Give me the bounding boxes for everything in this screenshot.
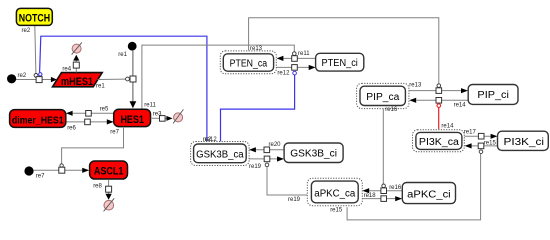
reaction square re3 xyxy=(160,116,166,122)
wire re20 GSK3B_ci to GSK3B_ca xyxy=(256,149,284,151)
arrowhead re16 into aPKC_ca xyxy=(362,188,369,193)
wire re16 aPKC_ci to aPKC_ca xyxy=(369,190,402,192)
svg-text:PI3K_ca: PI3K_ca xyxy=(419,137,459,148)
arrowhead re5 into dimer_HES1 xyxy=(66,111,73,116)
wire red PI3K_ca to re14 (modifier) xyxy=(438,108,440,130)
arrowhead re15 into PI3K_ca xyxy=(465,143,472,148)
svg-text:ASCL1: ASCL1 xyxy=(94,165,124,177)
node catalysis circle aPKC_ca at re19 xyxy=(265,163,269,167)
node catalysis circle HES1 at re11 xyxy=(293,52,297,56)
RNA mHES1 xyxy=(53,73,103,87)
wire mHES1 to re1 (modifier) xyxy=(98,78,126,80)
degradation circle re3 xyxy=(174,113,183,122)
svg-text:re16: re16 xyxy=(389,185,402,191)
reaction square re7 xyxy=(59,167,65,173)
wire re13 PIP_ca to PIP_ci xyxy=(409,90,461,92)
species PTEN_ci xyxy=(316,53,364,71)
species dimer_HES1 xyxy=(10,110,66,128)
degradation circle re4 xyxy=(72,44,81,53)
arrowhead re14 into PIP_ca xyxy=(409,98,416,103)
wire re8 ASCL1 degradation xyxy=(108,179,110,194)
svg-text:mHES1: mHES1 xyxy=(61,76,93,88)
svg-text:aPKC_ci: aPKC_ci xyxy=(407,189,451,200)
arrowhead re12 into PTEN_ci xyxy=(309,65,316,70)
svg-text:re14: re14 xyxy=(441,124,454,130)
arrowhead re17 into PI3K_ci xyxy=(491,134,498,139)
wire blue GSK3B_ca to re12 (modifier re12) xyxy=(221,75,295,141)
svg-text:GSK3B_ca: GSK3B_ca xyxy=(196,149,244,160)
svg-text:PTEN_ca: PTEN_ca xyxy=(230,59,268,70)
wire PTEN_ca to re13 (modifier) xyxy=(249,18,439,84)
species PIP_ci xyxy=(468,85,518,105)
arrowhead re2 into mHES1 xyxy=(51,77,57,82)
svg-text:re13: re13 xyxy=(250,46,263,52)
species PTEN_ca active dashed xyxy=(220,51,276,74)
svg-text:re3: re3 xyxy=(153,111,162,117)
svg-text:PIP_ci: PIP_ci xyxy=(477,90,509,101)
reaction square re20 xyxy=(264,147,270,153)
wire HES1 to re11 (modifier) xyxy=(142,45,294,109)
svg-text:PIP_ca: PIP_ca xyxy=(366,92,399,103)
wire re15 PI3K_ci to PI3K_ca xyxy=(471,145,497,147)
wire re1 source to HES1 xyxy=(132,51,134,102)
reaction square re14 xyxy=(436,98,442,104)
reaction square re16 xyxy=(381,188,387,194)
node catalysis circle PIP_ca at re16 xyxy=(382,184,386,188)
node blue catalysis circle at re2 xyxy=(39,73,42,76)
wire re7 source to ASCL1 xyxy=(34,169,83,171)
node catalysis circle NOTCH at re2 xyxy=(34,74,38,78)
species GSK3B_ci xyxy=(284,143,343,163)
wire re5 HES1 to dimer_HES1 xyxy=(72,112,113,114)
wire aPKC_ca to re19 (modifier) xyxy=(267,167,307,195)
node catalysis circle mHES1 at re1 xyxy=(126,77,130,81)
arrowhead re6 into HES1 xyxy=(107,119,114,124)
svg-text:re11: re11 xyxy=(298,51,310,57)
source circle re1 xyxy=(128,42,137,51)
wire blue GSK3B_ca to re2 (modifier re2) xyxy=(40,36,207,141)
svg-text:re11: re11 xyxy=(144,102,156,108)
arrowhead re3 xyxy=(166,116,172,121)
svg-text:dimer_HES1: dimer_HES1 xyxy=(12,115,64,126)
node red catalysis circle PI3K_ca at re14 xyxy=(437,104,441,108)
arrowhead re8 down xyxy=(105,194,111,200)
svg-text:re8: re8 xyxy=(93,183,102,189)
svg-text:re15: re15 xyxy=(484,140,497,146)
species PI3K_ci xyxy=(498,131,549,150)
arrowhead re11 into PTEN_ca xyxy=(277,56,284,61)
svg-text:re14: re14 xyxy=(454,102,467,108)
svg-text:re18: re18 xyxy=(364,193,377,199)
svg-text:re15: re15 xyxy=(330,208,343,214)
svg-text:re12: re12 xyxy=(205,137,218,143)
svg-text:re2: re2 xyxy=(18,73,27,79)
degradation circle re8 xyxy=(104,200,114,210)
arrowhead re13 into PIP_ci xyxy=(461,88,468,93)
wire PIP_ca to re16 (modifier) xyxy=(382,109,384,184)
reaction square re5 xyxy=(86,111,92,117)
svg-text:re20: re20 xyxy=(269,142,282,148)
reaction square re1 xyxy=(130,76,136,82)
svg-text:re17: re17 xyxy=(464,130,477,136)
svg-text:re19: re19 xyxy=(288,197,301,203)
reaction square re15 xyxy=(478,143,484,149)
species HES1 xyxy=(114,109,151,126)
svg-text:GSK3B_ci: GSK3B_ci xyxy=(290,148,337,159)
svg-text:re1: re1 xyxy=(118,52,127,58)
svg-text:re7: re7 xyxy=(110,130,119,136)
svg-text:re12: re12 xyxy=(277,71,290,77)
species aPKC_ci xyxy=(402,183,455,204)
svg-text:PI3K_ci: PI3K_ci xyxy=(504,137,545,148)
reaction square re6 xyxy=(85,119,91,125)
node blue catalysis circle at re12 xyxy=(293,71,297,75)
node catalysis circle PTEN_ca at re13 xyxy=(437,84,441,88)
reaction square re2 xyxy=(36,77,42,83)
wire re12 PTEN_ca to PTEN_ci xyxy=(277,66,310,68)
source circle re7 xyxy=(24,166,33,175)
svg-text:re1: re1 xyxy=(96,84,105,90)
wire re14 PIP_ci to PIP_ca xyxy=(417,99,469,101)
reaction square re19 xyxy=(264,156,270,162)
node catalysis circle HES1 at re7 xyxy=(60,164,63,167)
arrowhead re4 up xyxy=(73,55,79,61)
reaction square re4 xyxy=(73,62,79,68)
species PIP_ca active dashed xyxy=(357,83,409,108)
svg-text:re19: re19 xyxy=(249,164,262,170)
wire re18 aPKC_ca to aPKC_ci xyxy=(362,198,395,200)
wire re19 GSK3B_ca to GSK3B_ci xyxy=(249,158,277,160)
wire re11 PTEN_ci to PTEN_ca xyxy=(283,57,315,59)
svg-text:re13: re13 xyxy=(409,83,422,89)
reaction square re13 xyxy=(436,88,442,94)
species ASCL1 xyxy=(90,161,128,179)
wire aPKC_ca to re15 (modifier) xyxy=(347,154,481,220)
wire re4 mHES1 degradation xyxy=(75,61,77,73)
arrowhead re7 into ASCL1 xyxy=(82,168,89,173)
node catalysis circle aPKC_ca at re15 xyxy=(479,150,483,154)
wire re6 dimer_HES1 to HES1 xyxy=(66,121,107,123)
svg-text:HES1: HES1 xyxy=(120,114,144,126)
svg-text:aPKC_ca: aPKC_ca xyxy=(314,188,355,199)
svg-text:re16: re16 xyxy=(385,107,398,113)
svg-text:re6: re6 xyxy=(67,125,76,131)
wire re2 source to mHES1 xyxy=(16,79,52,81)
species aPKC_ca active dashed xyxy=(307,178,362,205)
svg-text:re4: re4 xyxy=(62,67,71,73)
svg-text:PTEN_ci: PTEN_ci xyxy=(322,58,358,69)
species GSK3B_ca active dashed xyxy=(191,142,250,166)
arrowhead re18 into aPKC_ci xyxy=(395,196,402,201)
wire NOTCH to re2 (modifier) xyxy=(35,25,36,73)
svg-text:re2: re2 xyxy=(22,28,31,34)
gene NOTCH xyxy=(16,8,52,25)
reaction square re17 xyxy=(478,133,484,139)
svg-text:NOTCH: NOTCH xyxy=(19,13,50,25)
arrowhead re20 into GSK3B_ca xyxy=(249,147,256,152)
wire re3 HES1 degradation xyxy=(151,117,167,119)
species PI3K_ca active dashed xyxy=(413,130,465,152)
reaction square re11 xyxy=(292,56,298,62)
reaction square re8 xyxy=(106,186,112,192)
arrowhead re1 into HES1 top xyxy=(130,101,137,108)
wire re17 PI3K_ca to PI3K_ci xyxy=(465,135,491,137)
arrowhead re19 into GSK3B_ci xyxy=(277,156,284,161)
reaction square re12 xyxy=(292,65,298,71)
svg-text:re7: re7 xyxy=(36,173,45,179)
wire HES1 to re7 (modifier) xyxy=(62,127,124,164)
svg-text:re5: re5 xyxy=(100,106,109,112)
source circle re2 xyxy=(7,74,16,83)
reaction square re18 xyxy=(381,196,387,202)
